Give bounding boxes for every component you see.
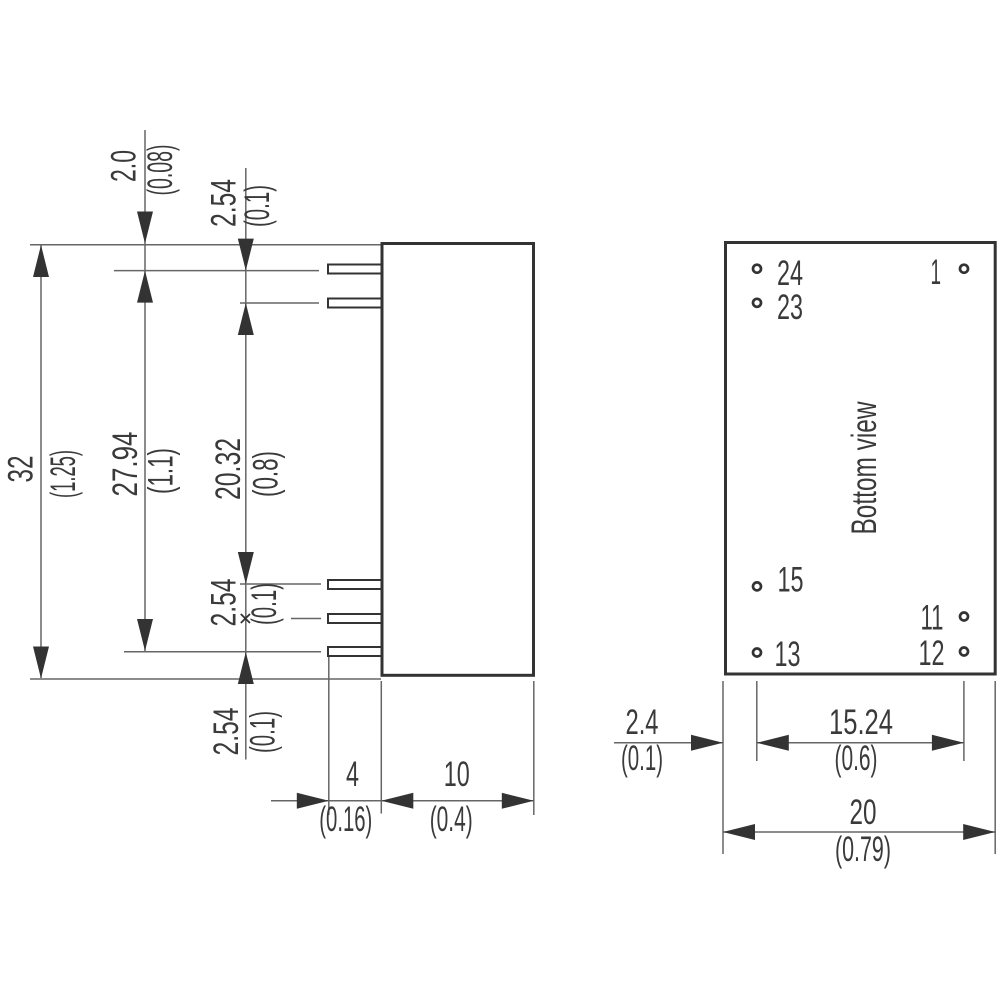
converter body side view xyxy=(382,244,534,676)
svg-text:(0.8): (0.8) xyxy=(247,451,286,497)
svg-text:(0.6): (0.6) xyxy=(835,739,878,778)
dimension point marker xyxy=(241,614,250,623)
svg-text:Bottom view: Bottom view xyxy=(845,401,884,535)
svg-text:1: 1 xyxy=(931,253,942,292)
svg-text:27.94: 27.94 xyxy=(106,432,145,497)
pin E side xyxy=(328,647,383,656)
extension line body left edge xyxy=(380,681,382,814)
svg-text:10: 10 xyxy=(444,755,470,794)
svg-text:15.24: 15.24 xyxy=(829,703,893,742)
svg-text:(1.1): (1.1) xyxy=(142,448,181,494)
pin A side xyxy=(328,265,383,274)
pin D side xyxy=(328,614,383,623)
extension line hole column left xyxy=(756,681,758,761)
extension line rect right xyxy=(994,681,996,854)
extension line pin C xyxy=(240,583,321,585)
svg-text:(0.1): (0.1) xyxy=(621,739,663,778)
svg-text:(1.25): (1.25) xyxy=(44,450,83,498)
pin hole 1 xyxy=(960,265,968,273)
pin hole 11 xyxy=(960,613,968,621)
svg-text:23: 23 xyxy=(777,288,803,327)
dimension line 20 xyxy=(723,831,995,833)
extension line pin D xyxy=(291,618,321,620)
dimension line 32 xyxy=(40,245,42,678)
svg-text:(0.08): (0.08) xyxy=(141,145,180,196)
extension line body top xyxy=(30,244,381,246)
pin hole 23 xyxy=(753,299,761,307)
svg-text:2.54: 2.54 xyxy=(207,708,246,756)
dimension line 2.54 / 20.32 / 2.54 / 2.54 xyxy=(245,168,247,760)
extension line rect left xyxy=(722,681,724,854)
pin hole 12 xyxy=(960,648,968,656)
svg-text:2.4: 2.4 xyxy=(626,703,659,742)
svg-text:(0.1): (0.1) xyxy=(238,185,277,227)
svg-text:20: 20 xyxy=(850,793,877,832)
svg-text:32: 32 xyxy=(2,456,41,483)
svg-text:4: 4 xyxy=(346,755,359,794)
extension line body right edge xyxy=(533,681,535,815)
dimension line 2.0 / 27.94 xyxy=(144,130,146,651)
extension line pin B xyxy=(240,302,319,304)
svg-text:11: 11 xyxy=(921,599,944,638)
dimension line 4 / 10 xyxy=(271,800,534,802)
svg-text:15: 15 xyxy=(778,561,804,600)
svg-text:12: 12 xyxy=(919,634,945,673)
extension line hole column right xyxy=(963,681,965,761)
svg-text:(0.1): (0.1) xyxy=(245,583,284,625)
extension line pin E xyxy=(124,651,321,653)
pin hole 15 xyxy=(753,582,761,590)
extension line pin left edge xyxy=(328,657,330,815)
extension line body bottom xyxy=(30,678,381,680)
svg-text:2.0: 2.0 xyxy=(105,150,144,182)
dimension line 15.24 xyxy=(757,742,964,744)
pin B side xyxy=(328,299,383,308)
svg-text:20.32: 20.32 xyxy=(209,438,248,500)
pin hole 24 xyxy=(753,265,761,273)
svg-text:(0.1): (0.1) xyxy=(244,711,283,753)
pin C side xyxy=(328,580,383,589)
svg-text:(0.79): (0.79) xyxy=(835,830,891,869)
svg-text:2.54: 2.54 xyxy=(205,579,244,627)
converter body bottom view xyxy=(726,243,996,675)
pin hole 13 xyxy=(753,649,761,657)
svg-text:(0.4): (0.4) xyxy=(430,800,473,839)
svg-text:(0.16): (0.16) xyxy=(319,800,372,839)
dimension line 2.4 xyxy=(614,742,723,744)
extension line pin A xyxy=(114,270,319,272)
svg-text:13: 13 xyxy=(775,635,801,674)
